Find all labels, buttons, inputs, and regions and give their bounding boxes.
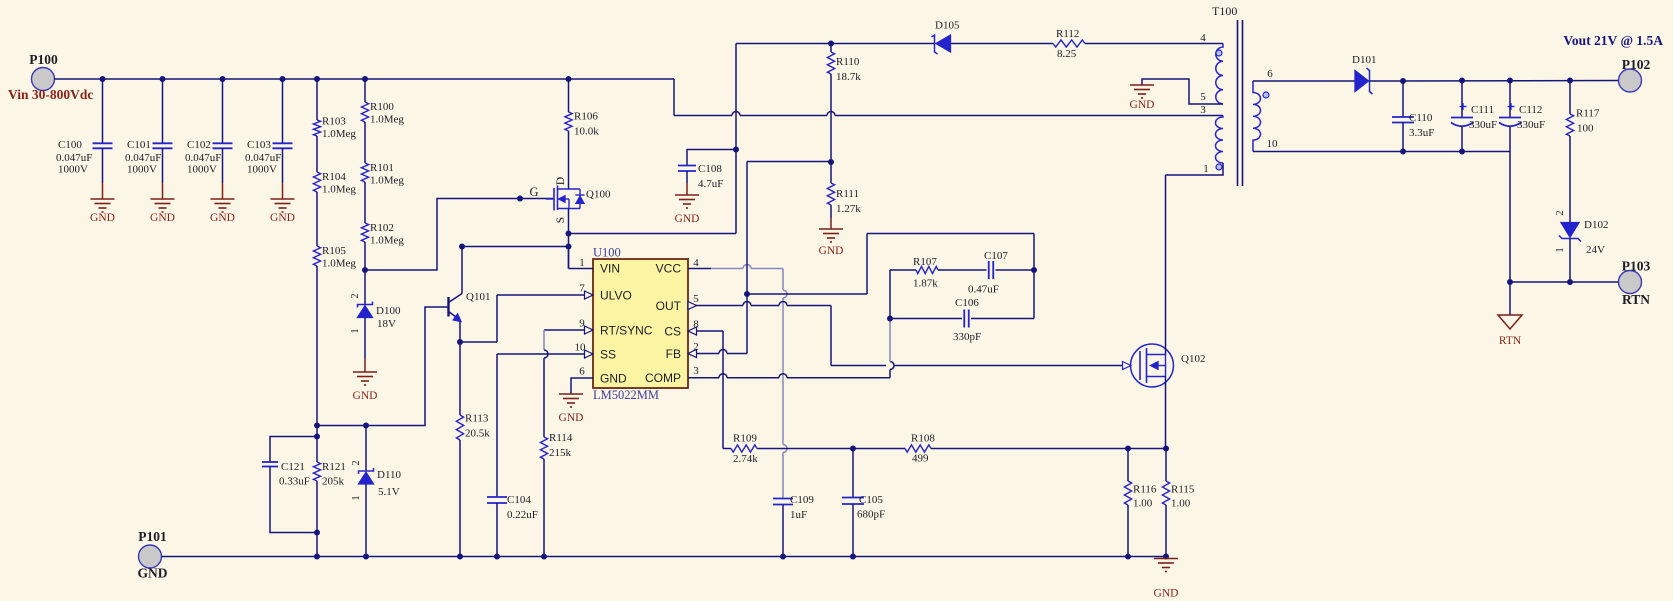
wire divider link [747,161,831,163]
diode D102 zener 24V [1561,223,1579,238]
resistor R111 1.27k [830,162,832,183]
wire FB link top [867,233,1034,235]
transistor Q102 MOSFET [1131,344,1174,387]
wire R104-R105 [316,192,318,246]
node R110 top [828,41,834,47]
wire ULVO riser [496,295,498,342]
wire C105 upper lead [852,449,854,498]
svg-text:24V: 24V [1586,244,1605,256]
svg-text:C101: C101 [127,139,151,151]
wire emitter to ULVO riser [460,341,497,343]
svg-text:0.047uF: 0.047uF [185,152,221,164]
transistor Q101 [447,297,449,317]
wire CS corner to R109 [723,448,731,450]
svg-text:R107: R107 [913,256,937,268]
resistor R110 18.7k [830,44,832,53]
diode D101 [1355,71,1369,92]
resistor R104 [313,172,320,192]
svg-text:1000V: 1000V [247,164,277,176]
svg-text:C109: C109 [790,494,814,506]
node FB riser [744,291,750,297]
svg-text:1: 1 [350,328,361,333]
svg-text:330uF: 330uF [1517,119,1545,131]
svg-text:1.0Meg: 1.0Meg [322,128,356,140]
svg-text:GND: GND [819,245,844,257]
port P103 [1619,271,1642,294]
svg-text:1: 1 [579,257,585,269]
svg-text:1000V: 1000V [127,164,157,176]
wire VCC gray riser [782,269,784,291]
wire COMP riser gray [889,319,891,362]
node D102 return [1567,279,1573,285]
svg-text:Q100: Q100 [586,189,611,201]
transformer polarity dot pin6 [1263,92,1269,98]
wire C100 lower lead [102,148,104,183]
wire R106 top lead [568,79,570,112]
transformer polarity dot pin1 [1216,164,1222,170]
svg-text:10: 10 [1267,138,1279,150]
resistor R112 8.25 [1053,40,1085,47]
wire C106 left lead [890,318,962,320]
svg-text:3.3uF: 3.3uF [1409,127,1434,139]
node C121 bottom [314,530,320,536]
node C103 top lead [280,76,286,82]
wire SS riser to C104 [496,354,498,497]
svg-text:0.47uF: 0.47uF [968,284,999,296]
svg-text:GND: GND [150,212,175,224]
node C105 top [850,446,856,452]
wire C104 to rail [496,503,498,557]
node R117 top [1567,78,1573,84]
wire gate rail to Q102 [831,365,886,367]
wire C106 right lead [971,318,1034,320]
svg-text:6: 6 [579,366,585,378]
pin arrow ULVO [585,291,594,299]
svg-text:5.1V: 5.1V [378,486,400,498]
wire CS riser [722,331,724,449]
wire R108 to sense node [931,448,1166,450]
ground D100 [353,371,377,373]
resistor R114 215k [540,437,547,459]
svg-text:C100: C100 [58,139,82,151]
svg-text:T100: T100 [1212,4,1237,18]
node R106 top [566,76,572,82]
svg-text:C105: C105 [859,494,883,506]
wire FB link riser [866,234,868,295]
capacitor C100 [93,142,113,144]
svg-text:R112: R112 [1056,28,1079,40]
node gate wire [517,196,523,202]
svg-text:COMP: COMP [645,371,681,385]
svg-text:R105: R105 [322,245,346,257]
svg-text:R110: R110 [836,56,860,68]
wire C102 lower lead [222,148,224,183]
capacitor C105 680pF [842,497,864,499]
wire RT riser to R114 [543,358,545,437]
svg-text:GND: GND [1154,588,1179,600]
svg-text:OUT: OUT [656,299,682,313]
wire source to HV riser [569,233,737,235]
svg-text:3: 3 [1200,104,1206,116]
wire RT riser hop [544,350,548,358]
svg-text:FB: FB [666,347,681,361]
node C106 left [887,316,893,322]
capacitor C109 1uF [773,498,793,500]
wire C121 branch bottom [270,467,317,533]
wire C105 to rail [852,504,854,557]
svg-text:C108: C108 [698,163,722,175]
svg-text:LM5022MM: LM5022MM [593,388,659,402]
svg-text:0.22uF: 0.22uF [507,509,538,521]
node R116 top [1125,446,1131,452]
svg-text:4: 4 [1200,32,1206,44]
resistor R105 [313,246,320,266]
svg-text:100: 100 [1577,123,1594,135]
wire pin10 SS [497,353,593,355]
ground RTN symbol [1498,315,1522,329]
svg-text:R104: R104 [322,171,346,183]
resistor R100 [361,102,368,122]
wire R101-R102 [364,182,366,223]
svg-text:6: 6 [1267,68,1273,80]
diode D105 zener [932,35,938,54]
wire R106 to Q100 drain [568,131,570,189]
svg-text:499: 499 [912,453,929,465]
wire COMP riser [889,370,891,378]
wire FB riser [746,162,748,354]
svg-text:GND: GND [1130,99,1155,111]
wire R111 to ground [830,205,832,218]
wire OUT down to gate rail [830,306,832,366]
svg-text:1.00: 1.00 [1171,498,1191,510]
node C100 top lead [100,76,106,82]
capacitor C107 0.47uF [988,261,990,279]
resistor R103 [313,120,320,136]
svg-text:C107: C107 [984,250,1008,262]
pin arrow SS [585,350,594,358]
svg-text:G: G [529,185,538,199]
svg-text:R121: R121 [322,461,346,473]
wire Q102 source [1165,377,1167,449]
svg-text:C104: C104 [507,494,531,506]
node divider tap [362,267,368,273]
wire R114 to rail [543,459,545,557]
svg-text:330uF: 330uF [1469,119,1497,131]
svg-text:P103: P103 [1622,259,1651,274]
svg-text:20.5k: 20.5k [465,428,490,440]
svg-text:D100: D100 [376,305,401,317]
svg-text:GND: GND [353,390,378,402]
pin arrow CS [688,327,697,335]
svg-text:2: 2 [351,460,362,465]
op-amp U100 body [593,259,688,388]
resistor R116 1.00 [1127,449,1129,482]
diode D100 zener 18V [358,302,373,308]
svg-text:1: 1 [1203,163,1209,175]
wire FB node link [747,293,867,295]
svg-text:SS: SS [600,348,616,362]
svg-text:GND: GND [600,372,627,386]
ground C102 [211,198,235,200]
wire R100-R101 [364,122,366,163]
resistor R109 2.74k [731,445,757,452]
svg-text:1.0Meg: 1.0Meg [370,114,404,126]
svg-text:0.33uF: 0.33uF [279,476,310,488]
svg-text:C103: C103 [247,139,271,151]
wire C108 top [687,150,736,166]
wire return riser [1509,152,1511,283]
svg-text:10.0k: 10.0k [574,126,599,138]
wire ground rail [162,556,1167,558]
svg-text:C112: C112 [1519,104,1542,116]
svg-text:R117: R117 [1576,108,1600,120]
node D110 top [363,423,369,429]
svg-text:R101: R101 [370,162,394,174]
capacitor C102 [213,142,233,144]
diode D110 lead [365,426,367,472]
capacitor C104 0.22uF [487,496,507,498]
wire pin7 ULVO [497,294,593,296]
wire R117 to D102 [1569,136,1571,224]
svg-text:1.27k: 1.27k [836,203,861,215]
transformer polarity dot pin4 [1216,50,1222,56]
wire Q100 source down [568,209,570,269]
capacitor C108 4.7uF [678,165,696,167]
node R110-R111 [828,159,834,165]
svg-text:RTN: RTN [1622,292,1650,307]
wire Vin rail corner down [673,79,675,116]
svg-text:1.0Meg: 1.0Meg [370,235,404,247]
svg-text:P101: P101 [138,529,167,544]
wire R107 left corner [890,269,916,271]
port P101 [139,545,162,568]
svg-text:C102: C102 [187,139,211,151]
svg-text:0.047uF: 0.047uF [125,152,161,164]
wire Vin top rail [55,78,675,80]
svg-text:R102: R102 [370,222,394,234]
svg-text:18.7k: 18.7k [836,71,861,83]
svg-text:Vin 30-800Vdc: Vin 30-800Vdc [8,87,93,102]
svg-text:1.87k: 1.87k [913,278,938,290]
node emitter junction [457,339,463,345]
svg-text:2.74k: 2.74k [733,453,758,465]
svg-text:680pF: 680pF [857,509,885,521]
resistor R101 [361,163,368,182]
svg-text:8.25: 8.25 [1057,48,1077,60]
svg-text:4.7uF: 4.7uF [698,178,723,190]
svg-text:GND: GND [210,212,235,224]
ground R111 [819,228,843,230]
capacitor C110 3.3uF [1402,81,1404,117]
wire R102 to node [364,242,366,270]
wire R108 left lead [853,448,905,450]
wire D100 to ground [364,318,366,359]
wire R105 down to C121 box [316,266,318,437]
svg-text:R115: R115 [1171,484,1195,496]
wire D102 to return [1569,239,1571,283]
node return corner [1507,279,1513,285]
svg-text:VCC: VCC [656,262,682,276]
wire C101 lower lead [162,148,164,183]
svg-text:P100: P100 [29,52,58,67]
resistor R117 100 [1569,81,1571,115]
svg-text:18V: 18V [377,318,396,330]
port P100 [32,68,55,91]
svg-text:VIN: VIN [600,262,620,276]
svg-text:GND: GND [559,412,584,424]
capacitor C101 [153,142,173,144]
svg-text:5: 5 [693,293,699,305]
diode D110 zener 5.1V [359,468,374,474]
transformer T100 secondary winding 6-10 [1253,81,1261,152]
svg-text:R109: R109 [733,433,757,445]
svg-text:R103: R103 [322,116,346,128]
wire secondary bottom rail [1253,151,1510,153]
node C101 top lead [160,76,166,82]
svg-text:C121: C121 [281,461,305,473]
svg-text:GND: GND [675,213,700,225]
wire base feed [317,307,449,426]
wire pin5 OUT [688,305,743,307]
wire R103-R104 [316,136,318,172]
svg-text:GND: GND [138,566,168,581]
svg-text:215k: 215k [549,447,572,459]
wire R103 chain top [314,76,320,82]
wire primary return [674,115,732,117]
svg-text:205k: 205k [322,476,345,488]
ground C103 [271,198,295,200]
capacitor C106 330pF [963,310,965,328]
svg-text:C106: C106 [955,297,979,309]
node source-snubber [566,231,572,237]
svg-text:RTN: RTN [1499,335,1522,347]
wire R121 to ground rail [316,481,318,557]
wire R116 to rail [1127,505,1129,557]
svg-text:1.0Meg: 1.0Meg [370,175,404,187]
svg-text:P102: P102 [1622,57,1651,72]
ground U100 pin6 [559,393,583,395]
wire R112 to transformer pin4 [1085,43,1223,45]
svg-text:0.047uF: 0.047uF [56,152,92,164]
svg-text:D105: D105 [935,20,960,32]
node C110 bottom [1400,149,1406,155]
svg-text:1.00: 1.00 [1133,498,1153,510]
node C107 right [1031,267,1037,273]
wire R113 to rail [459,440,461,557]
wire pin8 CS [688,330,723,332]
wire return to P103 [1510,281,1619,283]
wire D110 to rail [365,484,367,557]
pin arrow OUT [688,302,697,310]
svg-text:C110: C110 [1409,112,1433,124]
resistor R107 1.87k [916,266,938,273]
resistor R108 499 [905,445,931,452]
svg-text:1000V: 1000V [187,164,217,176]
svg-text:2: 2 [1555,210,1566,215]
wire C108 lower lead [686,171,688,183]
svg-text:GND: GND [270,212,295,224]
wire R115 to rail [1165,505,1167,557]
node R115 top [1163,446,1169,452]
ground C100 [91,198,115,200]
wire C107 right riser [1033,234,1035,319]
svg-text:3: 3 [693,365,699,377]
svg-text:1000V: 1000V [58,164,88,176]
svg-text:R106: R106 [574,111,598,123]
wire pin1 VIN [568,247,570,269]
capacitor C103 [273,142,293,144]
svg-text:330pF: 330pF [953,331,981,343]
svg-text:R113: R113 [465,413,489,425]
svg-text:R111: R111 [836,188,859,200]
wire HV riser [735,44,737,234]
transformer T100 primary winding 4-5 [1216,44,1223,105]
wire Q101 collector [461,247,463,294]
svg-text:R100: R100 [370,101,394,113]
wire R109 to C105 node [757,448,853,450]
transformer T100 primary winding 3-1 [1216,116,1223,164]
svg-text:1.0Meg: 1.0Meg [322,184,356,196]
wire output rail [1370,80,1619,83]
svg-text:R116: R116 [1133,484,1157,496]
node C102 top lead [220,76,226,82]
wire VCC gray horizontal [711,268,743,270]
svg-text:RT/SYNC: RT/SYNC [600,324,653,338]
ground rail junctions [314,554,320,560]
wire D105 to R112 [951,43,1054,45]
diode D100 lead [364,270,366,305]
svg-text:D101: D101 [1352,54,1376,66]
wire Q102 drain [1165,175,1167,355]
resistor R113 20.5k [459,342,461,415]
wire R121 top lead [316,437,318,463]
resistor R121 205k [313,462,320,481]
wire R107 to C107 [938,269,987,271]
wire RTN stem [1509,282,1511,315]
wire pin5 to ground stub [1142,79,1223,104]
pin arrow RT/SYNC [585,326,594,334]
resistor R102 [361,223,368,242]
wire gate feed [365,199,553,271]
transistor Q100 MOSFET [546,198,554,200]
svg-text:Vout 21V @ 1.5A: Vout 21V @ 1.5A [1563,33,1663,48]
node C121 top [314,423,320,429]
wire aux top [736,43,935,45]
node C108 tap [733,147,739,153]
wire pin4 VCC stub [688,268,711,270]
wire secondary top to D101 [1253,80,1355,82]
capacitor C121 0.33uF [262,461,278,463]
port P102 [1619,69,1642,92]
node C110 top [1400,78,1406,84]
svg-text:S: S [555,217,567,223]
pin arrow FB [688,350,697,358]
svg-text:Q101: Q101 [466,291,490,303]
svg-text:ULVO: ULVO [600,289,632,303]
svg-text:0.047uF: 0.047uF [245,152,281,164]
capacitor C111 330uF polarized [1459,78,1465,84]
svg-text:4: 4 [693,257,699,269]
svg-text:D102: D102 [1584,219,1608,231]
capacitor C112 330uF polarized [1507,78,1513,84]
resistor R106 10.0k [565,112,572,131]
svg-text:D: D [555,177,567,185]
svg-text:GND: GND [90,212,115,224]
transformer T100 core [1237,20,1239,186]
wire C107 right lead [996,269,1035,271]
wire R100 chain top [362,76,368,82]
svg-text:2: 2 [350,293,361,298]
